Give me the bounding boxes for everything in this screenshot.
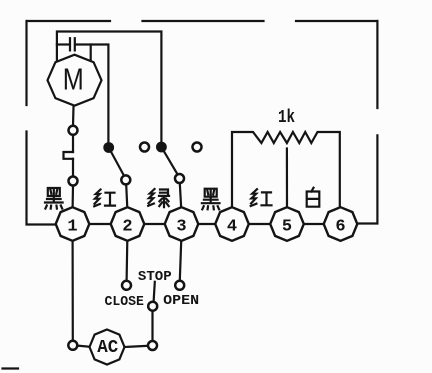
svg-text:6: 6 xyxy=(335,218,345,237)
wire STOP selector stem xyxy=(154,282,155,302)
wire terminal4-terminal5 xyxy=(249,223,270,225)
node circle above terminal 1 xyxy=(69,177,78,186)
terminal 1 xyxy=(56,207,90,241)
fuse F1 (thermal protector jog) xyxy=(64,152,74,159)
wire stub motor NE vertex xyxy=(90,45,92,62)
switch S2 moving contact dot xyxy=(156,142,167,153)
wire motor bottom to fuse xyxy=(72,106,75,126)
wire AC-right node up to STOP node xyxy=(151,311,153,341)
terminal 4 xyxy=(215,207,249,241)
wire terminal1 down to AC node xyxy=(71,241,73,341)
label lv (green) wire 3 xyxy=(148,189,169,207)
svg-text:OPEN: OPEN xyxy=(163,293,199,309)
label hei (black) wire 4 xyxy=(202,189,220,210)
svg-text:M: M xyxy=(63,62,84,97)
wire terminal2 down to CLOSE xyxy=(125,241,128,281)
wire S1 throw to terminal 2 xyxy=(126,185,127,209)
switch S2 throw circle xyxy=(175,174,184,183)
wire top loop from motor to switch S2 xyxy=(57,32,161,146)
svg-text:2: 2 xyxy=(122,218,132,237)
label bai (white) wire 6 xyxy=(307,188,320,207)
wire terminal3 down to OPEN xyxy=(180,241,181,280)
terminal 5 xyxy=(270,207,304,241)
wire terminal3-terminal4 xyxy=(198,223,215,225)
wire capacitor to switch S1 xyxy=(76,45,109,146)
wire capacitor branch left xyxy=(57,43,69,45)
node circle OPEN xyxy=(175,281,184,290)
svg-text:1k: 1k xyxy=(278,108,295,128)
node circle AC left xyxy=(68,341,77,350)
node circle STOP common xyxy=(148,302,157,311)
terminal 6 xyxy=(324,207,358,241)
wire AC-left node to AC source xyxy=(77,346,90,347)
terminal 2 xyxy=(111,207,145,241)
enclosure dashed border bottom xyxy=(3,367,19,369)
node circle AC right xyxy=(148,341,157,350)
switch S1 arm xyxy=(109,148,125,178)
label hei (black) wire 1 xyxy=(45,188,63,209)
capacitor C1 xyxy=(70,38,75,50)
svg-text:3: 3 xyxy=(176,218,186,237)
switch S1 moving contact dot xyxy=(103,142,114,153)
wire terminal1-terminal2 xyxy=(89,223,110,225)
wire S2 throw to terminal 3 xyxy=(180,183,181,208)
wire resistor wiper to terminal 5 xyxy=(286,149,288,209)
motor M1 xyxy=(48,55,102,106)
enclosure dashed border left xyxy=(27,21,57,225)
svg-text:AC: AC xyxy=(97,337,118,358)
resistor R1 1k (potentiometer bracket) xyxy=(232,132,340,207)
svg-text:STOP: STOP xyxy=(138,269,172,285)
wire terminal5-terminal6 xyxy=(304,223,324,225)
enclosure dashed border right xyxy=(357,21,377,224)
open contact circle right xyxy=(193,143,202,152)
svg-text:1: 1 xyxy=(67,218,77,237)
AC source G1 xyxy=(90,330,125,365)
wire AC source to AC-right node xyxy=(125,346,149,347)
wire circle to fuse xyxy=(72,135,74,152)
node circle CLOSE xyxy=(122,281,131,290)
switch S1 throw circle xyxy=(121,175,130,184)
node circle below motor xyxy=(69,126,78,135)
label hong (red) wire 2 xyxy=(94,190,115,207)
open contact circle left xyxy=(140,143,149,152)
wire node to terminal 1 xyxy=(71,186,74,208)
svg-text:4: 4 xyxy=(227,218,237,237)
enclosure dashed border top xyxy=(27,20,377,22)
switch S2 arm xyxy=(161,147,178,177)
wire terminal2-terminal3 xyxy=(144,223,164,225)
terminal 3 xyxy=(165,207,199,241)
label hong (red) wire 5 xyxy=(251,189,272,206)
svg-text:CLOSE: CLOSE xyxy=(105,295,144,310)
svg-text:5: 5 xyxy=(282,218,292,237)
wire fuse to node xyxy=(72,159,74,176)
